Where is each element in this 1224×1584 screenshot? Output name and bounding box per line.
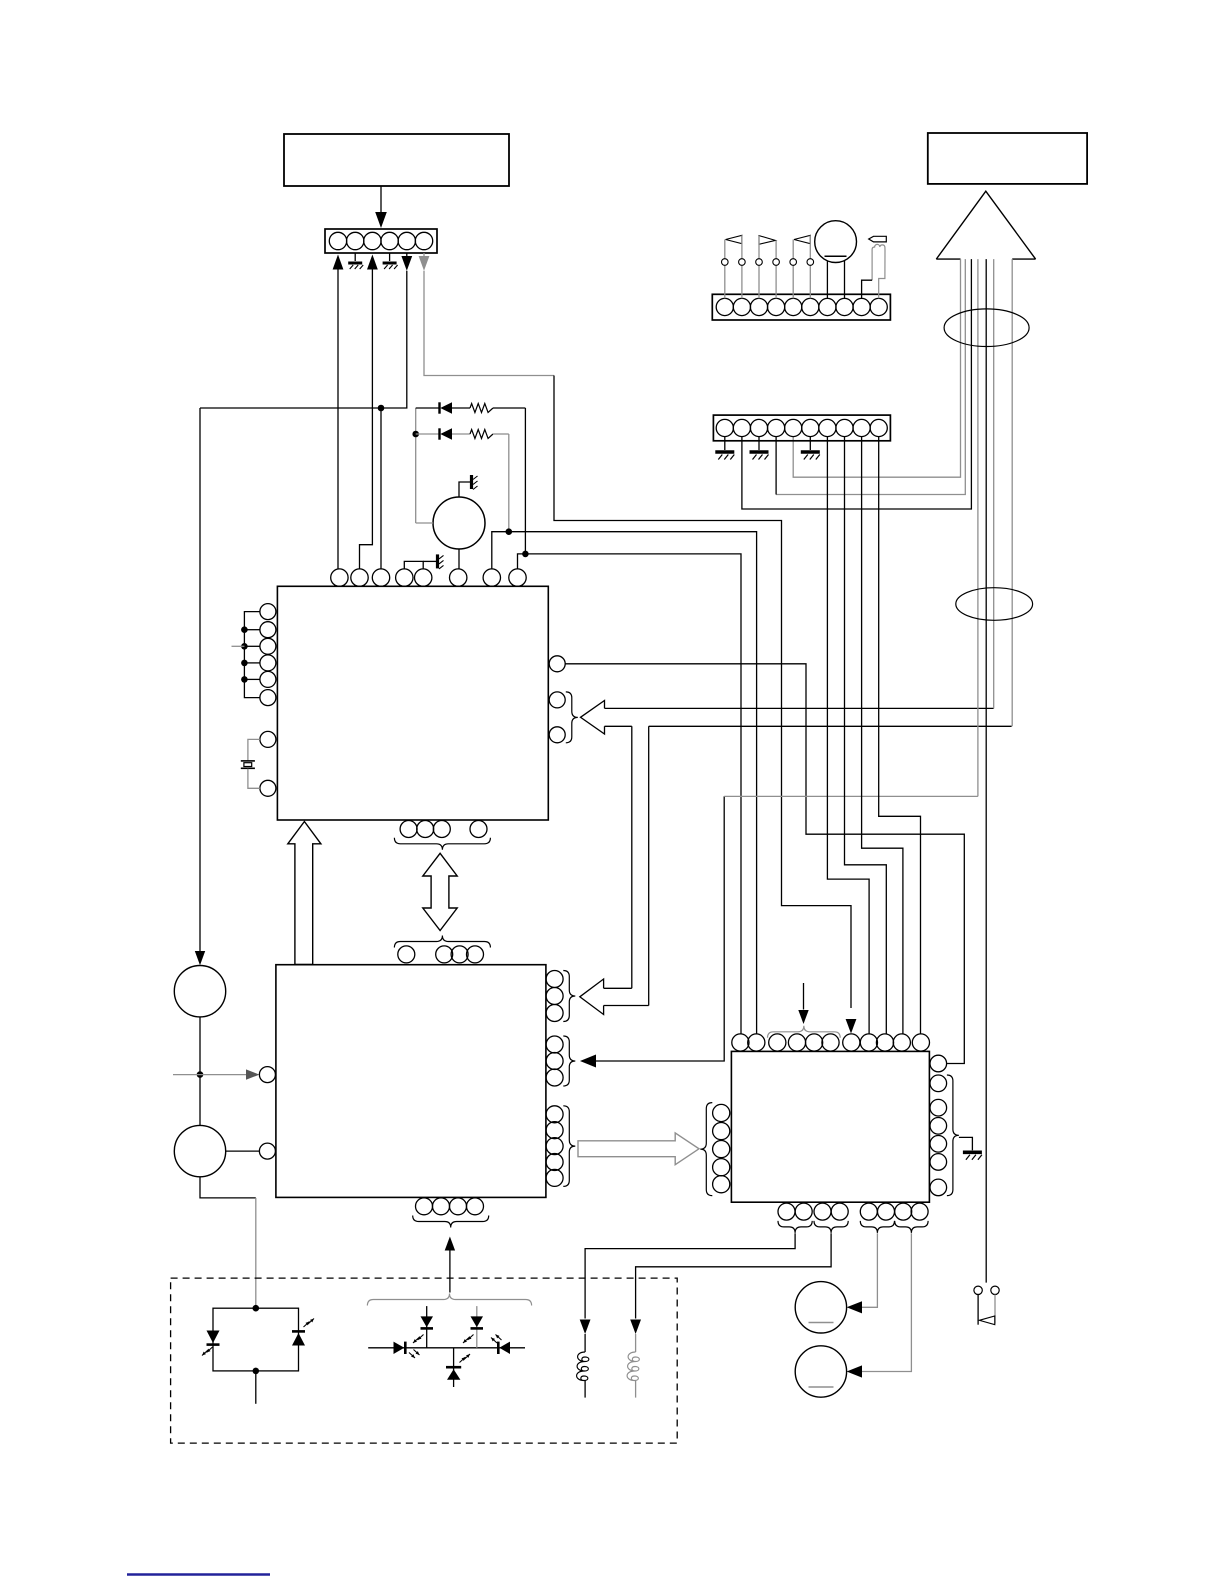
- earpiece/receiver circle top: [174, 966, 225, 1017]
- wire J1 pin1 to IC1 pin: [337, 270, 339, 569]
- brace IC2 group2: [563, 1036, 575, 1086]
- junction dot mic line: [197, 1071, 204, 1078]
- wire J1 pin3 to IC1 pin2: [360, 270, 373, 569]
- block arrow IC2 to IC1: [288, 822, 321, 965]
- jack plug triangle: [979, 1316, 995, 1325]
- ground at IC3 right: [963, 1151, 982, 1155]
- bundle wire C: [742, 259, 972, 509]
- wire IC1 pin7 to IC3 pin2: [492, 532, 757, 1034]
- bus arrow into IC1 right: [581, 701, 605, 735]
- connector J2 (10-pin): [712, 294, 890, 320]
- test point circles pair 1: [722, 259, 729, 266]
- IC2 right pins group2: [546, 1036, 563, 1053]
- tail coil1: [584, 1381, 586, 1398]
- IC2 left pin2: [259, 1143, 275, 1159]
- IC2 block: [276, 965, 546, 1198]
- arrow up into J1 pin3: [367, 255, 378, 270]
- LED pack rectangle: [213, 1308, 299, 1371]
- test point circles pair 2: [756, 259, 763, 266]
- brace IC2 group1: [563, 971, 575, 1022]
- over-brace IC3 pins3-6: [768, 1026, 841, 1038]
- inductor coil2: [627, 1352, 639, 1381]
- blue footer line: [127, 1573, 270, 1575]
- LED D11 branch1: [426, 1306, 428, 1348]
- wire row2 right to pin7 bus: [493, 433, 509, 435]
- dashed boundary box: [171, 1278, 678, 1443]
- zener LED D14 center: [453, 1348, 455, 1387]
- junction dots on left bus: [241, 626, 248, 633]
- wire branch to IC1 pin3: [380, 408, 382, 569]
- arrow on coil2 wire: [630, 1320, 641, 1335]
- brace above IC2 top pins: [394, 936, 490, 948]
- arrow into IC2 group2: [580, 1055, 596, 1068]
- wire J3 pin7 staircase: [827, 437, 869, 1034]
- brace IC3 bot pair3: [860, 1221, 894, 1233]
- wire brace to ground: [959, 1137, 973, 1150]
- receiver body outline: [872, 244, 885, 298]
- junction dot LED pack bottom: [253, 1368, 260, 1375]
- resistor R2: [470, 430, 493, 439]
- tail coil2: [635, 1381, 637, 1398]
- buffer triangle pair 1: [726, 235, 742, 243]
- IC3 block: [731, 1051, 929, 1202]
- wire row1 left rail: [415, 408, 417, 523]
- ground at J1 pin2: [354, 253, 356, 261]
- wires pair 1: [724, 240, 726, 259]
- bundle wire A: [793, 259, 960, 477]
- wires mic to J2 pins7-8: [826, 262, 828, 299]
- stub wire on left bus: [232, 645, 245, 647]
- LED D9 (right, up): [292, 1333, 305, 1346]
- arrow top edge to pipe: [604, 987, 632, 989]
- wires pair 2: [758, 236, 760, 259]
- wire from crystal X1: [248, 769, 260, 789]
- IC3 right pins group: [930, 1075, 947, 1092]
- receiver bullet icon: [869, 236, 887, 242]
- wires pair 3: [792, 240, 794, 259]
- dangling arrow onto brace: [803, 983, 805, 1010]
- wire J3 pin9 staircase: [862, 437, 903, 1034]
- brace at IC1 right pins: [566, 692, 578, 743]
- ground (side) at IC1 top: [436, 554, 439, 568]
- block arrow IC2 to IC3: [578, 1133, 699, 1165]
- arrow up into J1 pin1: [333, 255, 344, 270]
- wire to coil2: [635, 1334, 637, 1352]
- wire group2 from bundle D: [596, 796, 724, 1061]
- brace IC3 bot pair1: [778, 1221, 812, 1233]
- LED D8 (left, down): [207, 1331, 220, 1344]
- bundle wire B: [776, 259, 965, 494]
- wire IC3 to speaker1: [862, 1233, 877, 1307]
- arrow into IC2 left pin1: [246, 1069, 259, 1079]
- IC1 bottom pins: [400, 821, 417, 838]
- ground J3 pin3: [758, 437, 760, 450]
- IC1 left pin bus: [244, 612, 260, 698]
- IC1 left pins: [260, 604, 276, 620]
- wire mic to IC2 pin: [226, 1150, 260, 1152]
- wire mic bottom to LED pack: [200, 1177, 256, 1198]
- key LED bus line: [368, 1347, 525, 1349]
- LED D12 branch2: [476, 1306, 478, 1348]
- cable loop ellipse 1: [944, 309, 1029, 347]
- wire pin6 path mid: [554, 376, 851, 1009]
- IC1 crystal pins: [260, 731, 276, 747]
- brace IC3 left pins: [700, 1103, 712, 1196]
- wire IC1 pin8 to IC3 pin1: [518, 554, 742, 1034]
- mic/speaker circle on J2: [815, 221, 857, 263]
- bus arrow bottom edge segs: [605, 725, 632, 727]
- test point circles pair 3: [790, 259, 797, 266]
- IC3 left pins: [713, 1104, 730, 1121]
- headset jack contacts: [974, 1286, 982, 1294]
- double-head bus arrow IC1-IC2: [423, 853, 457, 930]
- IC1 right pins pair: [549, 692, 565, 708]
- IC2 bottom pins: [416, 1198, 433, 1215]
- speaker SP1: [795, 1282, 846, 1333]
- arrow on coil1 wire: [580, 1320, 591, 1335]
- IC2 right pins group1: [546, 971, 563, 988]
- IC3 top pins: [732, 1034, 749, 1051]
- wire motor left: [416, 522, 433, 524]
- junction dot row1/pin8: [522, 551, 529, 558]
- arrow bottom edge to pipe: [604, 1005, 649, 1007]
- crystal X1: [241, 760, 255, 762]
- arrow down from J1 pin6: [419, 256, 430, 271]
- bundle wire G: [993, 259, 995, 708]
- arrow up into IC2 bottom: [445, 1237, 455, 1251]
- wire conn3 pin4 stub: [775, 437, 777, 495]
- buffer triangle pair 2: [759, 236, 775, 245]
- wire motor bottom to IC1: [458, 549, 460, 569]
- microphone circle: [174, 1125, 225, 1176]
- bundle wire F (headset): [985, 259, 987, 1283]
- IC2 left pin1: [259, 1067, 275, 1083]
- junction dot on pin5 bus: [378, 405, 385, 412]
- wire J3 pin8 staircase: [845, 437, 887, 1034]
- stub below LED pack: [255, 1371, 257, 1404]
- diode D13 (left-point): [497, 1342, 500, 1354]
- brace under IC1 pins: [394, 838, 490, 850]
- wire J1 pin5 down-left bus: [200, 271, 407, 408]
- wire to crystal X1: [248, 739, 260, 760]
- jack right stem: [994, 1295, 996, 1324]
- diode D2: [416, 433, 440, 435]
- arrow down from J1 pin5: [401, 256, 412, 271]
- speaker SP2: [795, 1346, 846, 1397]
- diode D1: [416, 407, 440, 409]
- buffer triangle pair 3: [794, 235, 810, 243]
- IC2 right pins group3: [546, 1106, 563, 1123]
- arrow into connector J1: [375, 212, 387, 228]
- diode D10 (right-point): [394, 1342, 405, 1354]
- arrow into receiver: [195, 951, 205, 965]
- brace IC3 bot pair2: [814, 1221, 848, 1233]
- ground at J1 pin4: [389, 253, 391, 261]
- wire IC3 to speaker2: [862, 1233, 911, 1371]
- inductor coil1: [577, 1352, 589, 1381]
- block: main board box: [928, 133, 1087, 184]
- connector J1 (6-pin): [325, 229, 437, 253]
- wire to coil1: [584, 1334, 586, 1352]
- ground at motor top: [470, 475, 473, 489]
- IC1 top pins: [331, 569, 348, 586]
- junction dot LED pack top: [253, 1305, 260, 1312]
- junction dot row2/pin7: [506, 528, 513, 535]
- arrow onto IC3 pin7: [846, 1019, 857, 1034]
- wire IC3 to vib coil1: [585, 1233, 795, 1318]
- brace IC3 bot pair4: [895, 1221, 928, 1233]
- arrow into speaker2: [847, 1365, 862, 1377]
- stub wire into IC2 left pin1: [173, 1074, 247, 1076]
- wire IC3 to vib coil2: [636, 1233, 832, 1318]
- resistor R1: [470, 404, 493, 413]
- IC1 CPU block: [277, 586, 548, 820]
- bus pipe wall right: [648, 726, 650, 1005]
- motor M1: [433, 497, 485, 549]
- brace IC3 right pins: [947, 1075, 959, 1196]
- arrow into speaker1: [847, 1301, 862, 1313]
- IC1 pins 4-5 tie to ground: [404, 561, 423, 569]
- connector J3 (10-pin): [713, 415, 890, 441]
- brace under IC2 bottom pins: [413, 1216, 489, 1228]
- junction dot row2 left: [412, 431, 419, 438]
- wire: LCD box to connector J1: [380, 186, 382, 213]
- brace IC2 group3: [563, 1106, 575, 1187]
- IC2 top pins: [398, 946, 415, 963]
- wire receiver to junction: [199, 1017, 201, 1126]
- wire motor top to ground: [459, 482, 470, 497]
- brace over key LED network: [367, 1294, 531, 1306]
- wire row1 right to pin8 bus: [493, 407, 525, 409]
- IC1 right pin (single): [549, 656, 565, 672]
- bundle wire H: [1011, 259, 1013, 726]
- ground J3 pin1: [724, 437, 726, 450]
- bus pipe wall left: [631, 726, 633, 988]
- ground J3 pin6: [809, 437, 811, 450]
- IC3 bottom pins: [778, 1203, 795, 1220]
- bundle wire D: [977, 259, 979, 796]
- wire J1 pin6 (KEY LED line): [424, 271, 554, 376]
- bus arrow top edge: [605, 707, 994, 709]
- IC3 right pin single: [930, 1055, 947, 1072]
- wire left rail down to earpiece: [199, 408, 201, 953]
- bus arrow into IC2 group1: [580, 979, 604, 1015]
- big arrow head outline: [936, 191, 1035, 259]
- wire receiver to J2 pin9: [862, 280, 873, 298]
- wire J3 pin10 staircase: [879, 437, 921, 1034]
- block: LCD module box: [284, 134, 509, 186]
- cable loop ellipse 2: [956, 588, 1033, 621]
- wire IC1 right pin to IC3 right pin: [565, 664, 964, 1064]
- jack left stem: [977, 1295, 979, 1325]
